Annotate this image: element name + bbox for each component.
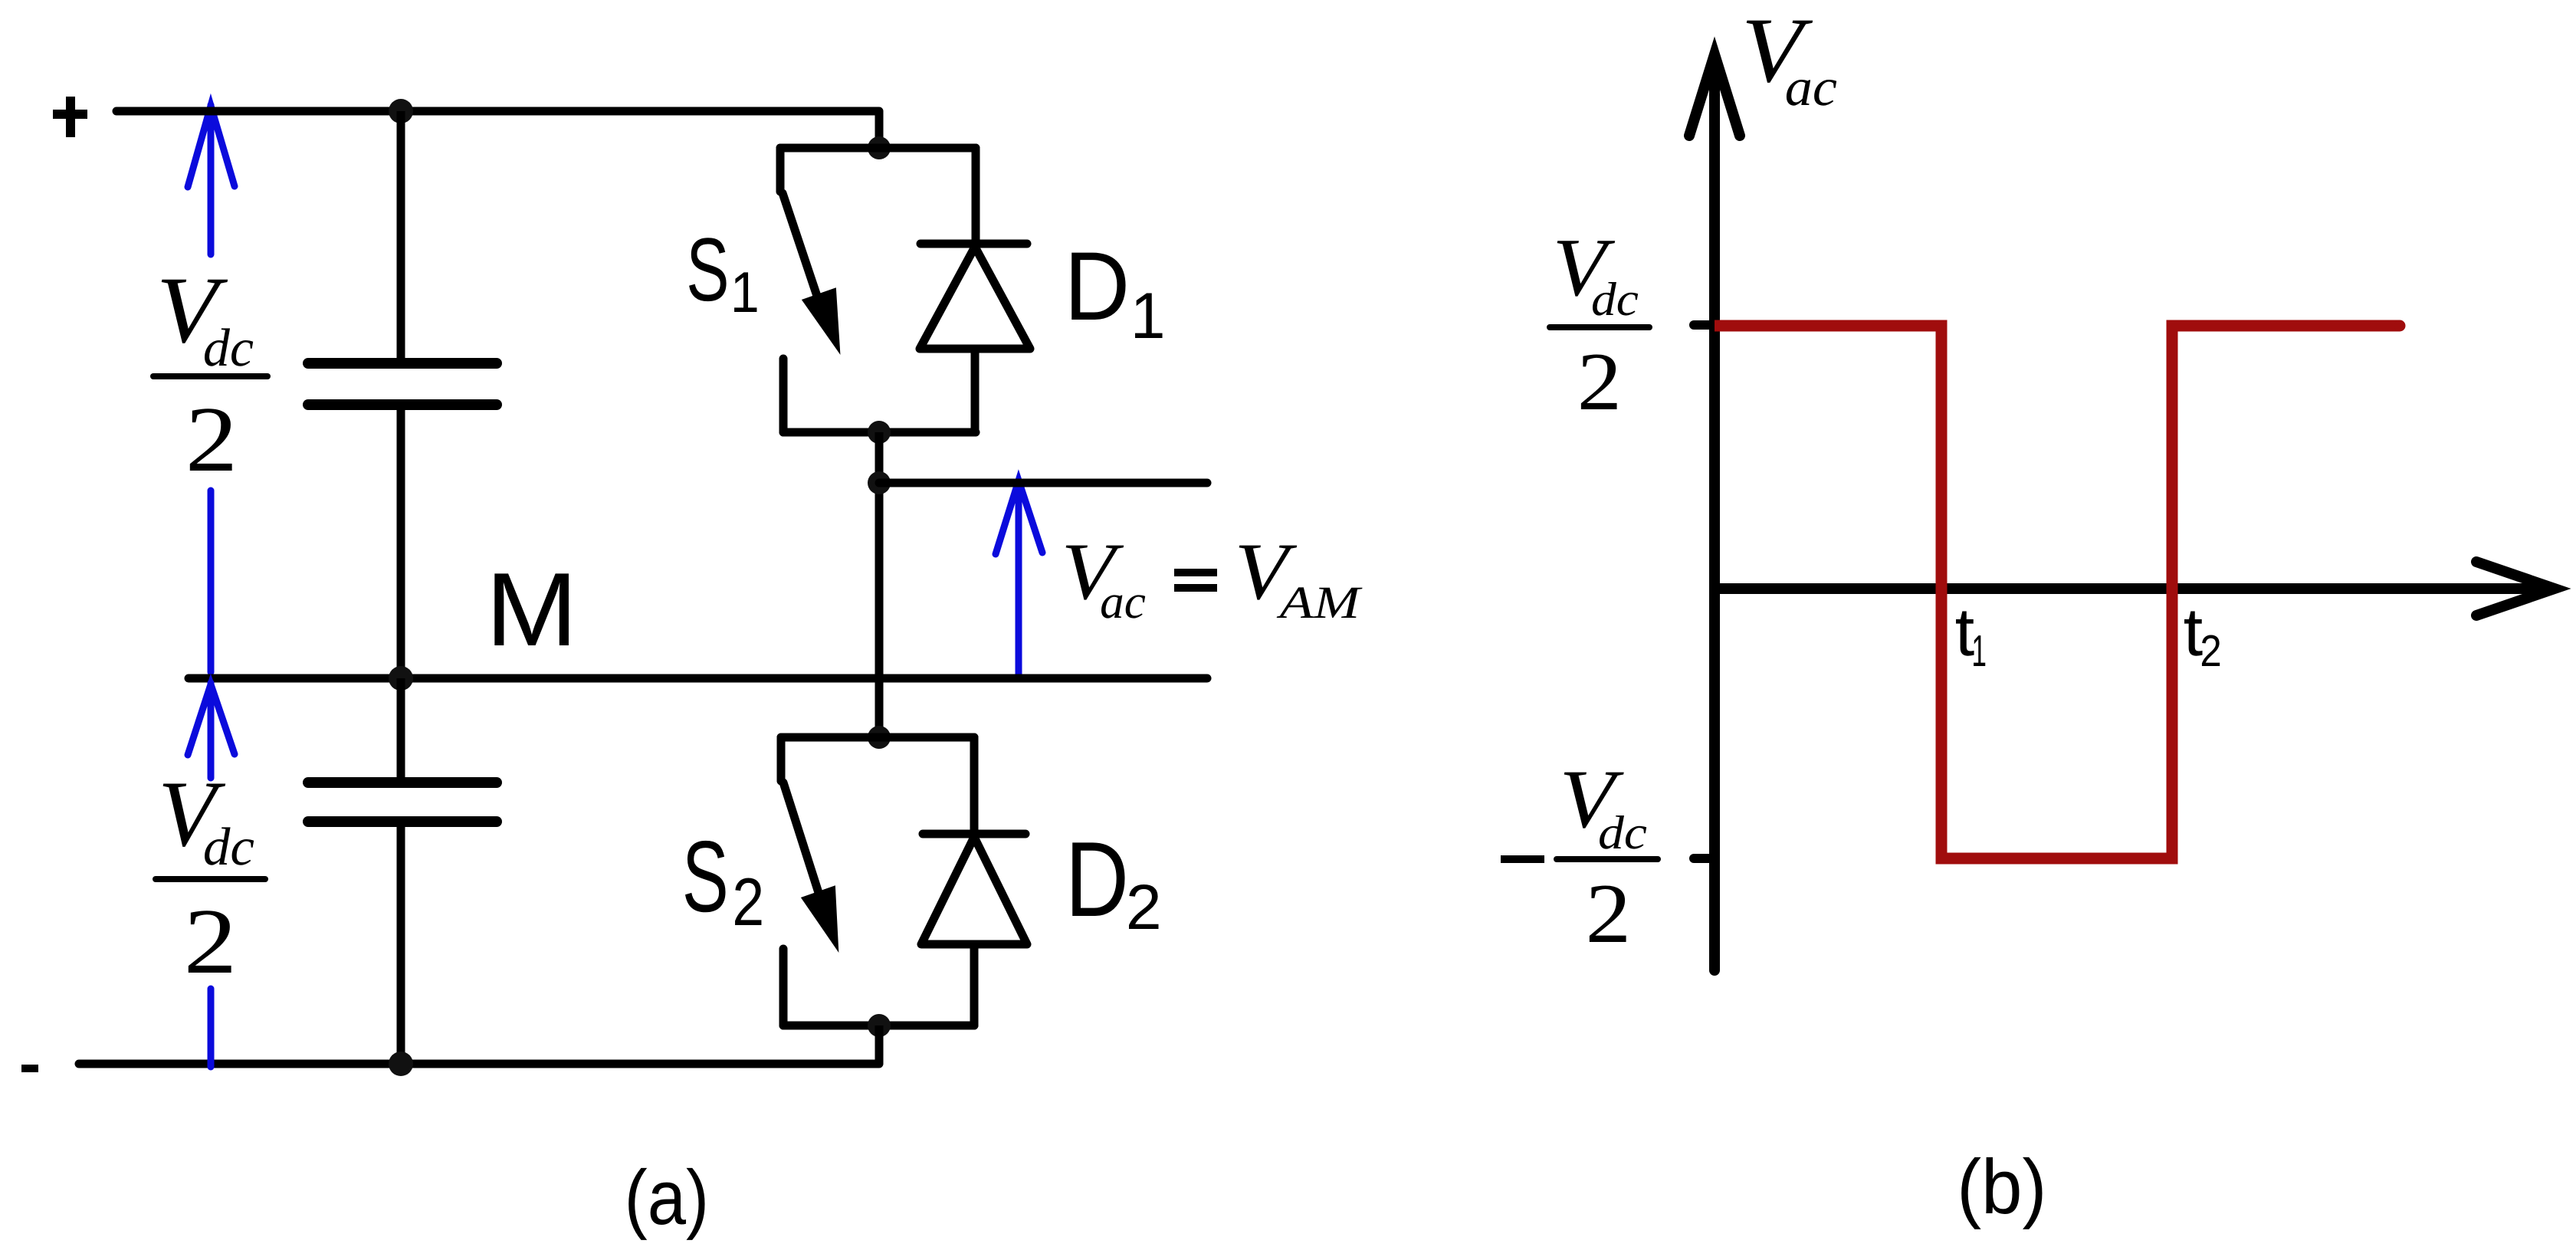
svg-text:S: S	[686, 219, 729, 320]
svg-text:AM: AM	[1276, 577, 1363, 628]
wire S1 loop top	[780, 144, 976, 153]
switch S2	[781, 737, 826, 1025]
node junction top bus	[389, 99, 413, 123]
switch S1	[780, 148, 826, 432]
svg-text:2: 2	[1577, 336, 1622, 428]
wire upper bus	[397, 111, 405, 363]
node junction M	[389, 666, 413, 691]
wire bottom rail	[79, 1060, 879, 1068]
svg-text:ac: ac	[1100, 575, 1146, 628]
svg-text:(b): (b)	[1957, 1144, 2046, 1230]
wire bus between C2 and bottom rail	[397, 822, 405, 1064]
arrow Vac blue	[996, 481, 1042, 679]
capacitor C1	[308, 363, 497, 405]
svg-text:dc: dc	[203, 319, 254, 378]
node junction S1 bottom	[868, 421, 891, 444]
svg-text:dc: dc	[1591, 274, 1639, 326]
svg-text:2: 2	[1586, 867, 1632, 961]
node junction S2 bottom	[868, 1014, 891, 1037]
svg-text:2: 2	[184, 890, 238, 993]
wire output A	[879, 479, 1207, 487]
tick Vdc2	[1694, 320, 1715, 330]
node junction S2 top	[868, 726, 891, 749]
diode D2	[921, 737, 1027, 1025]
arrow Vdc2 lower blue	[188, 683, 235, 1067]
wire S2 to bottom rail	[875, 1025, 884, 1064]
svg-text:D: D	[1065, 231, 1130, 340]
svg-text:1: 1	[730, 260, 760, 324]
wire S1 loop bottom	[783, 428, 976, 437]
axis vertical Vac	[1689, 54, 1740, 970]
svg-text:ac: ac	[1785, 58, 1837, 117]
arrow Vdc2 upper blue	[188, 105, 235, 672]
tick minus Vdc2	[1694, 854, 1715, 863]
svg-text:(a): (a)	[625, 1155, 710, 1241]
axis horizontal time	[1715, 562, 2555, 615]
capacitor C2	[308, 783, 497, 822]
wire bus between C1 and M	[397, 405, 405, 678]
label minus Vdc2 axis	[1501, 855, 1544, 863]
svg-text:2: 2	[732, 864, 764, 940]
node junction output	[868, 471, 891, 494]
svg-text:S: S	[682, 820, 729, 933]
waveform Vac square wave	[1715, 326, 2400, 858]
svg-text:D: D	[1065, 820, 1129, 939]
node plus terminal	[53, 97, 87, 137]
svg-text:dc: dc	[203, 818, 254, 877]
node junction bottom bus	[389, 1052, 413, 1076]
svg-text:1: 1	[1971, 626, 1987, 676]
svg-text:1: 1	[1130, 280, 1166, 353]
node minus terminal	[21, 1065, 38, 1072]
wire S2 loop bottom	[783, 1022, 974, 1030]
svg-text:2: 2	[185, 388, 238, 491]
wire M rail	[189, 674, 1207, 683]
wire top rail	[116, 111, 879, 148]
svg-text:dc: dc	[1598, 807, 1647, 859]
diode D1	[920, 148, 1030, 432]
wire lower bus	[397, 678, 405, 783]
svg-text:2: 2	[1126, 871, 1162, 943]
wire S2 loop top	[781, 733, 974, 742]
wire output drop	[875, 432, 884, 737]
svg-text:M: M	[486, 551, 578, 668]
node junction S1 top	[868, 136, 891, 159]
svg-text:2: 2	[2200, 626, 2221, 676]
